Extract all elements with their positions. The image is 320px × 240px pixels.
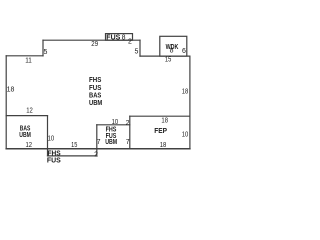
svg-text:FHS: FHS: [48, 150, 62, 157]
node bottom bump codes FHS FUS: [47, 150, 61, 164]
svg-text:2: 2: [94, 151, 98, 158]
svg-text:UBM: UBM: [105, 139, 117, 146]
svg-text:10: 10: [48, 136, 55, 143]
svg-text:10: 10: [112, 119, 119, 126]
svg-text:FUS: FUS: [47, 157, 61, 164]
node middle bump left: [96, 125, 98, 156]
svg-text:18: 18: [182, 89, 189, 96]
wire bottom edge: [6, 148, 190, 150]
svg-text:BAS: BAS: [89, 92, 102, 99]
svg-text:FHS: FHS: [89, 77, 102, 84]
svg-text:15: 15: [71, 142, 77, 149]
svg-text:10: 10: [182, 131, 189, 138]
node bottom bump left: [47, 149, 49, 156]
node BAS box right: [47, 116, 49, 149]
wire left step vertical: [42, 40, 44, 56]
svg-text:12: 12: [26, 107, 33, 114]
svg-text:29: 29: [91, 41, 98, 48]
node middle bump codes FHS FUS UBM: [105, 127, 117, 147]
node FEP top: [130, 115, 190, 117]
wire left step horizontal: [6, 55, 43, 57]
svg-text:FUS: FUS: [89, 85, 102, 92]
svg-text:8: 8: [122, 34, 126, 41]
svg-text:6: 6: [182, 48, 186, 55]
svg-text:2: 2: [128, 39, 132, 46]
svg-text:5: 5: [43, 49, 47, 56]
svg-text:FUS: FUS: [106, 34, 120, 41]
wire upper right horizontal: [140, 55, 190, 57]
node BAS box top: [6, 115, 47, 117]
svg-text:UBM: UBM: [19, 132, 31, 139]
node WDK box: [160, 36, 187, 56]
node main area code stack FHS FUS BAS UBM: [89, 77, 102, 107]
wire left edge: [5, 56, 7, 149]
svg-text:18: 18: [7, 87, 15, 94]
svg-text:WDK: WDK: [166, 44, 179, 51]
node FUS bay box: [106, 34, 133, 41]
svg-text:FEP: FEP: [154, 128, 167, 135]
node middle bump top: [97, 124, 130, 126]
svg-text:18: 18: [161, 118, 168, 125]
svg-text:12: 12: [26, 142, 33, 149]
svg-text:7: 7: [97, 139, 101, 146]
svg-text:18: 18: [160, 142, 167, 149]
svg-text:11: 11: [25, 58, 32, 65]
wire right edge: [189, 56, 191, 149]
wire right step vertical: [139, 40, 141, 56]
svg-text:5: 5: [134, 49, 138, 56]
svg-text:UBM: UBM: [89, 100, 102, 107]
svg-text:7: 7: [126, 139, 130, 146]
wire main outline top edge: [43, 39, 140, 41]
node bottom bump floor: [48, 155, 97, 157]
svg-text:2: 2: [126, 120, 130, 127]
node BAS UBM box codes: [19, 126, 31, 140]
node FEP left: [129, 116, 131, 149]
svg-text:15: 15: [165, 56, 171, 63]
